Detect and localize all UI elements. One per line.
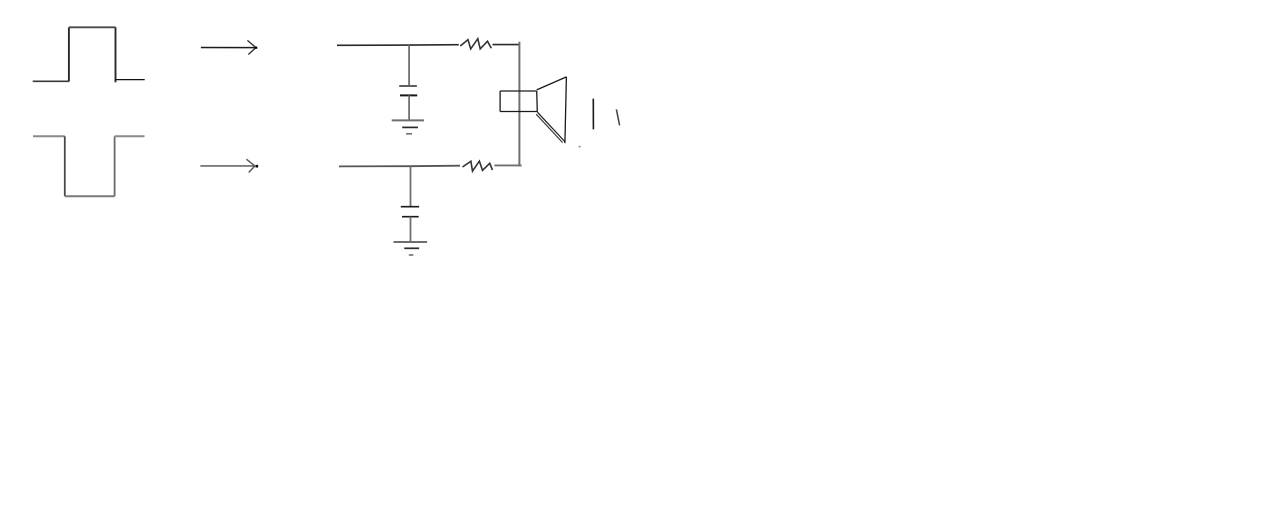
sound waves xyxy=(579,99,620,148)
arrow (bottom input) xyxy=(200,159,258,172)
speaker LS1 xyxy=(500,77,566,143)
capacitor C2 xyxy=(401,207,419,217)
ground (C1) xyxy=(392,120,424,133)
arrow (top input) xyxy=(201,40,257,54)
resistor R2 xyxy=(463,161,493,171)
wire junction to capacitor C1 xyxy=(408,45,410,86)
wire junction to capacitor C2 xyxy=(410,166,412,206)
wire speaker bus (vertical) xyxy=(518,42,520,167)
wire top input xyxy=(337,44,459,47)
wire C2 to ground xyxy=(410,217,412,242)
wire R2 to speaker bus xyxy=(494,164,521,166)
wire bottom input xyxy=(339,165,460,168)
wire C1 to ground xyxy=(408,95,410,120)
wire R1 to speaker bus xyxy=(493,44,520,46)
ground (C2) xyxy=(394,242,428,255)
capacitor C1 xyxy=(399,86,417,95)
positive pulse waveform xyxy=(33,27,145,82)
negative pulse waveform xyxy=(33,136,145,196)
resistor R1 xyxy=(460,39,491,49)
